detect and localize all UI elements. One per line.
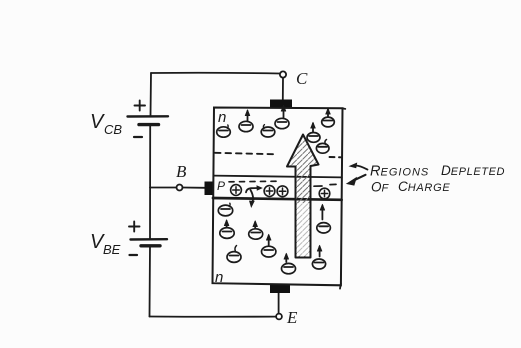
node C terminal circle: [280, 71, 286, 77]
battery V_BE plus sign: [129, 222, 140, 232]
electron eb3 with drift arrow: [249, 222, 263, 239]
transistor body rectangle: [213, 108, 343, 286]
corner overshoot bottom-right: [339, 284, 342, 289]
corner overshoot top-right: [342, 107, 345, 110]
electron e5 with drift arrow: [307, 124, 320, 143]
wire collector lead down to contact: [282, 78, 284, 100]
battery V_BE minus sign: [130, 254, 138, 256]
wire left rail upper (top wire to V_CB): [150, 73, 153, 116]
hole h2: [264, 186, 275, 197]
lighter hatch on lower shaft: [297, 203, 309, 256]
dashed depletion boundary upper right segment: [330, 156, 342, 158]
node E terminal circle: [276, 314, 282, 320]
battery V_CB minus sign: [134, 136, 142, 138]
wire bottom horizontal to emitter node: [150, 316, 277, 318]
svg-text:n: n: [215, 269, 223, 286]
svg-text:C: C: [296, 69, 308, 88]
base metal contact: [205, 182, 215, 196]
electron eb5 with drift arrow: [262, 236, 276, 258]
wire left rail middle (V_CB to V_BE through B junction): [149, 125, 151, 239]
wire left rail lower (V_BE to bottom wire): [149, 246, 152, 316]
svg-text:REGIONS: REGIONS: [370, 164, 429, 180]
battery V_BE long plate +: [131, 238, 168, 241]
wire emitter lead from contact down to node E: [278, 293, 280, 313]
hole drift arrow right: [246, 188, 259, 192]
electron e1: [217, 125, 231, 137]
battery V_CB plus sign: [135, 101, 146, 111]
collector metal contact: [270, 100, 292, 108]
wire base branch from rail to node B: [150, 187, 176, 189]
battery V_BE short plate -: [141, 244, 160, 247]
annotation arrow to base depletion region: [354, 175, 366, 181]
electron eb7 with long drift arrow: [317, 206, 331, 234]
svg-text:BE: BE: [103, 242, 121, 257]
battery V_CB short plate -: [139, 123, 159, 126]
annotation arrow to upper depletion region: [354, 165, 368, 169]
electron e3: [261, 125, 275, 137]
hole h4: [319, 188, 330, 199]
svg-text:V: V: [90, 111, 105, 133]
dashed depletion boundary upper (in collector): [215, 153, 275, 154]
svg-text:n: n: [218, 109, 226, 126]
wire top horizontal from left rail to collector node: [151, 72, 280, 75]
dashed depletion base right segments: [314, 184, 336, 186]
electron eb6 with drift arrow: [282, 255, 296, 274]
electron e2 with drift arrow: [239, 111, 253, 132]
svg-text:E: E: [286, 308, 298, 327]
electron eb8 with drift arrow: [312, 247, 325, 270]
big electron-flow arrow (hatched): [287, 135, 319, 258]
electron eb2 with drift arrow: [220, 221, 234, 238]
svg-text:CHARGE: CHARGE: [398, 179, 450, 194]
electron e7 with squiggle: [316, 140, 329, 154]
electron e6 with drift arrow: [322, 110, 335, 127]
electron eb1: [218, 203, 232, 216]
svg-text:CB: CB: [104, 122, 122, 137]
electron e4 with drift arrow: [275, 107, 289, 129]
svg-text:P: P: [217, 179, 225, 193]
hole h3: [277, 186, 288, 197]
junction line p-region bottom boundary: [213, 198, 342, 200]
wire node B to base contact: [183, 187, 205, 189]
electron eb4 with squiggle: [227, 246, 241, 263]
hole h1: [231, 185, 242, 196]
node B terminal circle: [177, 185, 183, 191]
svg-text:OF: OF: [371, 180, 390, 195]
svg-text:DEPLETED: DEPLETED: [441, 163, 505, 178]
battery V_CB long plate +: [128, 115, 169, 118]
svg-text:B: B: [176, 162, 187, 181]
junction line p-region top boundary: [214, 176, 342, 178]
dashed depletion boundary in base region: [229, 180, 280, 183]
recombination arrow curving down from base: [251, 190, 254, 203]
emitter metal contact: [270, 284, 290, 293]
